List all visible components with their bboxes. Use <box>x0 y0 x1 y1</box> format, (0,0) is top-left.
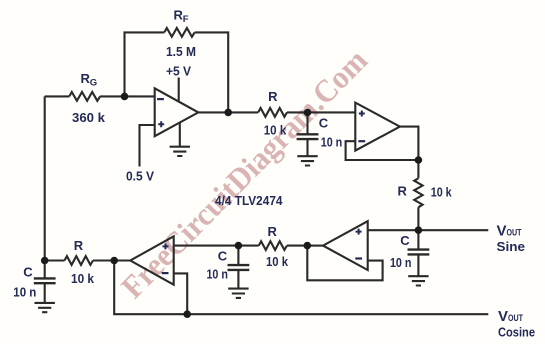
svg-text:1.5 M: 1.5 M <box>166 44 196 59</box>
svg-text:C: C <box>400 233 410 248</box>
capacitor C3 10n <box>228 265 250 270</box>
U1 plus sign <box>158 121 164 127</box>
wire bottom middle row <box>174 245 308 247</box>
capacitor C1 10n <box>297 134 319 139</box>
svg-text:R: R <box>268 224 278 239</box>
svg-text:R: R <box>398 184 408 199</box>
svg-text:+5 V: +5 V <box>166 63 191 78</box>
svg-text:OUT: OUT <box>507 227 522 237</box>
svg-text:10 n: 10 n <box>390 255 412 270</box>
resistor RG 360k <box>69 92 100 101</box>
U3 minus sign <box>355 257 362 259</box>
node U1 output <box>224 109 232 117</box>
svg-text:G: G <box>90 77 97 88</box>
wire 0.5V to noninverting input <box>140 125 155 167</box>
svg-text:V: V <box>498 308 508 325</box>
svg-text:R: R <box>268 89 278 104</box>
wire U1 output row <box>198 111 355 113</box>
wire sine output row <box>368 229 489 231</box>
wire U1 ground stem <box>179 122 181 146</box>
resistor R 10k top <box>258 108 287 117</box>
node cosine tap <box>183 310 191 318</box>
wire U4 output stub <box>114 259 130 261</box>
U3 plus sign <box>356 229 362 235</box>
op-amp U2 triangle <box>355 103 400 151</box>
node RG/inverting input <box>121 93 129 101</box>
svg-text:OUT: OUT <box>508 313 523 323</box>
wire R vertical top stub <box>417 160 419 230</box>
U2 plus sign <box>359 111 365 117</box>
node U3 output <box>304 242 312 250</box>
U1 minus sign <box>157 98 164 100</box>
node C1 top <box>304 109 312 117</box>
wire RG to inverting node <box>100 95 155 97</box>
ground C1 <box>297 156 317 165</box>
resistor RF 1.5M <box>164 28 194 37</box>
wire U3 output stub <box>307 245 323 247</box>
capacitor C2 10n <box>408 250 430 255</box>
op-amp U4 triangle <box>130 236 173 284</box>
svg-text:10 n: 10 n <box>321 135 343 150</box>
wire +5V stem <box>178 78 180 103</box>
svg-text:0.5 V: 0.5 V <box>126 169 154 184</box>
svg-text:10 k: 10 k <box>266 254 289 269</box>
resistor R 10k bottom middle <box>259 241 287 250</box>
svg-text:360 k: 360 k <box>72 110 106 125</box>
svg-text:10 k: 10 k <box>71 271 95 286</box>
svg-text:C: C <box>23 264 33 279</box>
wire RG row left <box>45 95 70 97</box>
node U4 output <box>110 257 118 265</box>
wire capacitor C4 stem <box>44 261 46 303</box>
svg-text:R: R <box>74 238 84 253</box>
svg-text:10 k: 10 k <box>431 184 453 199</box>
svg-text:F: F <box>183 14 189 25</box>
wire RF feedback loop <box>125 32 229 112</box>
wire left rail <box>44 96 46 260</box>
wire bottom left row <box>45 259 115 261</box>
node U2 feedback <box>415 156 423 164</box>
resistor R 10k vertical <box>414 178 422 207</box>
wire capacitor C2 stem <box>417 230 419 276</box>
node U4 noninverting <box>235 242 243 250</box>
svg-text:Sine: Sine <box>497 239 526 254</box>
svg-text:V: V <box>497 222 507 239</box>
ground C2 <box>408 276 428 285</box>
op-amp U1 triangle <box>155 88 199 136</box>
wire U2 output and feedback <box>346 127 419 160</box>
capacitor C4 10n <box>34 278 56 283</box>
svg-text:10 n: 10 n <box>13 284 36 299</box>
node C4 top <box>41 257 49 265</box>
resistor R 10k bottom left <box>65 256 94 265</box>
wire capacitor C3 stem <box>237 246 239 288</box>
svg-text:4/4 TLV2474: 4/4 TLV2474 <box>215 193 283 208</box>
wire U3 feedback loop <box>307 246 382 281</box>
svg-text:Cosine: Cosine <box>498 324 535 339</box>
U4 plus sign <box>163 243 169 249</box>
wire capacitor C1 stem <box>306 112 308 155</box>
wire cosine rail <box>114 261 488 315</box>
svg-text:C: C <box>319 116 329 131</box>
node sine output <box>415 226 423 234</box>
U2 minus sign <box>358 140 365 142</box>
op-amp U3 triangle <box>323 221 368 270</box>
svg-text:10 k: 10 k <box>264 122 287 137</box>
ground U1 <box>170 147 190 156</box>
U4 minus sign <box>162 272 169 274</box>
svg-text:10 n: 10 n <box>206 267 228 282</box>
ground C3 <box>228 289 248 298</box>
ground C4 <box>35 303 55 312</box>
wire U4 feedback to cosine rail <box>174 273 188 314</box>
svg-text:C: C <box>218 248 228 263</box>
